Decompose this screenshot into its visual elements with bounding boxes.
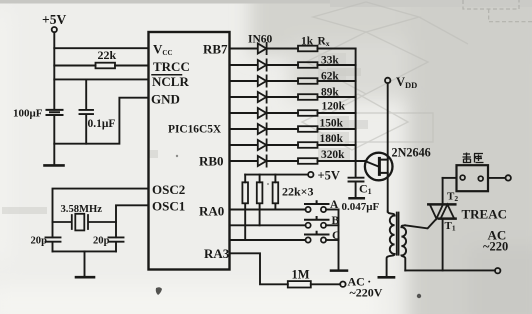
resistor 320k xyxy=(298,158,318,164)
svg-text:1k: 1k xyxy=(301,36,314,48)
wire T2 vertical xyxy=(442,178,444,204)
socket box xyxy=(457,165,489,191)
terminal AC 220V xyxy=(340,282,345,287)
switch B xyxy=(306,223,311,228)
capacitor C2 100uF xyxy=(47,110,63,115)
wire Vcc row xyxy=(54,47,148,49)
wire OSC2 route xyxy=(53,189,149,238)
svg-text:TREAC: TREAC xyxy=(462,207,508,222)
row3 diode D3 xyxy=(230,80,356,82)
wire GND route xyxy=(54,98,148,144)
svg-text:0.1μF: 0.1μF xyxy=(88,118,116,130)
svg-text:1M: 1M xyxy=(292,268,310,282)
svg-text:NCLR: NCLR xyxy=(152,74,189,89)
ground (main rail) xyxy=(45,164,64,167)
svg-text:~220: ~220 xyxy=(483,240,508,254)
resistor 150k xyxy=(298,126,318,132)
ground (C1) xyxy=(350,197,364,200)
svg-text:150k: 150k xyxy=(320,118,344,130)
wire T1 vertical xyxy=(442,219,444,271)
wire osc bottom xyxy=(53,250,117,252)
wire resistor bus xyxy=(355,49,357,178)
terminal AC bottom right xyxy=(495,268,500,273)
svg-text:B: B xyxy=(332,215,340,227)
svg-text:GND: GND xyxy=(151,92,180,107)
svg-text:100μF: 100μF xyxy=(13,108,43,120)
wire TRCC row xyxy=(54,65,148,67)
wire row C xyxy=(230,239,306,241)
svg-text:IN60: IN60 xyxy=(248,34,273,46)
svg-text:A: A xyxy=(330,199,339,211)
resistor 180k xyxy=(298,142,318,148)
transistor Q1 2N2646 xyxy=(365,153,393,181)
svg-text:OSC1: OSC1 xyxy=(152,199,185,214)
row8 diode D8 xyxy=(230,160,365,162)
switch A xyxy=(306,207,311,212)
svg-text:20p: 20p xyxy=(31,236,48,247)
resistor 120k xyxy=(298,110,318,116)
svg-text:+5V: +5V xyxy=(318,169,340,183)
svg-text:22k×3: 22k×3 xyxy=(282,185,314,199)
wire RA3 route xyxy=(230,253,288,284)
row6 diode D6 xyxy=(230,128,356,130)
wire row B xyxy=(230,224,306,226)
wire gate to triac xyxy=(405,219,436,229)
svg-text:+5V: +5V xyxy=(42,12,66,27)
svg-text:3.58MHz: 3.58MHz xyxy=(61,204,103,215)
wire RB7 row + diode D1 xyxy=(230,48,356,50)
crystal Y1 3.58MHz xyxy=(53,215,117,229)
labels right xyxy=(392,75,509,254)
svg-text:RA0: RA0 xyxy=(199,204,224,219)
ground (oscillator) xyxy=(76,276,94,279)
svg-text:RA3: RA3 xyxy=(204,246,230,261)
svg-text:33k: 33k xyxy=(321,55,339,67)
ground (transformer primary) xyxy=(379,276,394,279)
triac TREAC xyxy=(428,203,455,206)
wire pullup top rail xyxy=(245,174,308,176)
svg-text:2N2646: 2N2646 xyxy=(392,146,431,160)
svg-text:22k: 22k xyxy=(98,48,117,62)
resistor 22k x3 #2 xyxy=(259,175,261,226)
transformer T secondary coil xyxy=(401,225,406,270)
row2 diode D2 xyxy=(230,64,356,66)
labels mid bottom xyxy=(282,169,383,300)
pin/net labels left xyxy=(13,12,230,261)
svg-text:62k: 62k xyxy=(321,71,339,83)
wire NCLR row xyxy=(54,78,148,80)
wire VDD vertical xyxy=(387,83,389,212)
wire switch bus xyxy=(338,210,340,271)
ground (switches) xyxy=(331,269,347,272)
wire socket right xyxy=(488,177,505,179)
resistor 22k x3 #1 xyxy=(244,175,246,240)
wire bottom AC line xyxy=(405,269,495,271)
resistor 89k xyxy=(298,94,318,100)
svg-text:OSC2: OSC2 xyxy=(152,182,185,197)
socket label (Chinese: cha zuo) xyxy=(463,153,484,163)
wire OSC1 route xyxy=(116,205,149,237)
capacitor C1 0.047uF xyxy=(349,178,364,198)
IC U1 PIC16C5X body xyxy=(149,32,230,270)
terminal +5V mid xyxy=(308,172,313,177)
wire rail below 100uF xyxy=(53,115,55,165)
resistor 1k Rx xyxy=(298,46,318,52)
svg-text:RB0: RB0 xyxy=(199,154,224,169)
row4 diode D4 xyxy=(230,96,356,98)
resistor 33k xyxy=(298,62,318,68)
wire osc ground tap xyxy=(84,251,86,276)
wire emitter from 320k xyxy=(365,161,378,166)
svg-text:0.047μF: 0.047μF xyxy=(342,201,380,213)
terminal VDD xyxy=(385,78,390,83)
svg-text:20p: 20p xyxy=(93,236,110,247)
wire RA0 row A xyxy=(230,209,306,211)
wire 1M to AC xyxy=(311,283,340,285)
paper smudges xyxy=(156,155,421,298)
terminal AC socket right xyxy=(506,175,511,180)
resistor 1M xyxy=(288,281,311,287)
capacitor 20p left xyxy=(46,237,61,251)
svg-text:C: C xyxy=(332,230,340,242)
row7 diode D7 xyxy=(230,144,356,146)
svg-text:RB7: RB7 xyxy=(203,42,228,57)
svg-text:89k: 89k xyxy=(321,87,339,99)
row5 diode D5 xyxy=(230,112,356,114)
capacitor 20p right xyxy=(109,237,124,251)
resistor ladder labels xyxy=(248,34,379,214)
svg-text:PIC16C5X: PIC16C5X xyxy=(168,124,222,136)
resistor R 22k xyxy=(96,63,116,69)
resistor 62k xyxy=(298,78,318,84)
transformer T primary coil xyxy=(387,212,395,276)
resistor 22k x3 #3 xyxy=(274,175,276,210)
svg-text:120k: 120k xyxy=(322,101,346,113)
svg-text:~220V: ~220V xyxy=(350,286,383,300)
+5V supply terminal xyxy=(52,27,57,32)
svg-text:TRCC: TRCC xyxy=(153,59,190,74)
wire +5V rail xyxy=(53,32,55,109)
svg-text:180k: 180k xyxy=(320,133,344,145)
transformer core xyxy=(397,213,399,255)
wire socket left xyxy=(443,177,457,179)
capacitor 0.1uF branch xyxy=(80,79,94,143)
switch C xyxy=(306,237,311,242)
svg-text:320k: 320k xyxy=(321,149,345,161)
NCLR overline xyxy=(152,74,182,76)
